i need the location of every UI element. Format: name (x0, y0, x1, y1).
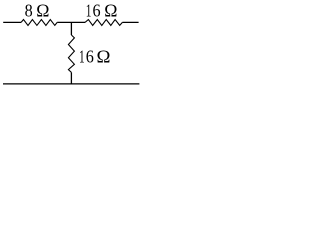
node T-junction vertical drop wire (70, 22, 72, 35)
resistor R3 16-ohm vertical zigzag (68, 35, 74, 72)
wire top-right lead (122, 21, 138, 23)
svg-text:6: 6 (93, 1, 101, 21)
wire top-middle segment (57, 21, 85, 23)
svg-text:Ω: Ω (96, 47, 110, 66)
svg-text:Ω: Ω (36, 0, 49, 20)
svg-text:8: 8 (25, 1, 33, 21)
svg-text:Ω: Ω (104, 0, 117, 20)
wire vertical lower segment (70, 72, 72, 83)
resistor R1 8-ohm zigzag (21, 20, 57, 26)
wire top-left lead (3, 21, 21, 23)
svg-text:6: 6 (86, 47, 94, 67)
svg-text:1: 1 (86, 2, 92, 21)
resistor R2 16-ohm zigzag (85, 20, 122, 26)
svg-text:1: 1 (79, 48, 85, 67)
wire bottom return (3, 83, 139, 85)
